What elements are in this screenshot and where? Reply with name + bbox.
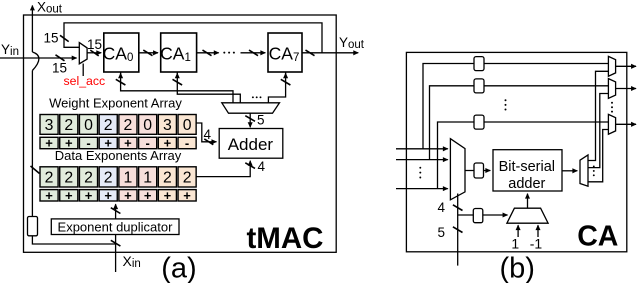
svg-text:2: 2 <box>124 117 133 134</box>
Bit-serial adder box <box>493 150 562 191</box>
register R2 on line 2 <box>474 79 484 93</box>
svg-text:adder: adder <box>508 176 545 192</box>
slash on select line (5) <box>453 227 463 233</box>
register on X path <box>28 217 38 236</box>
dots at demux outputs <box>593 166 595 177</box>
svg-text:+: + <box>85 188 93 203</box>
svg-text:1: 1 <box>143 170 152 187</box>
svg-text:+: + <box>164 188 172 203</box>
slash below CA7 <box>281 79 291 85</box>
slash on data-adder wire <box>245 163 255 169</box>
wire mux select line down <box>457 194 459 266</box>
svg-text:2: 2 <box>183 170 192 187</box>
svg-text:2: 2 <box>163 170 172 187</box>
slash on weight-adder wire <box>204 139 213 145</box>
svg-text:sel_acc: sel_acc <box>64 74 106 88</box>
svg-text:1: 1 <box>511 236 519 252</box>
svg-text:0: 0 <box>143 117 152 134</box>
svg-text:2: 2 <box>84 170 93 187</box>
CA7 cell <box>268 33 302 72</box>
output demux (left-pointing trapezoid) <box>580 155 588 186</box>
operand mux (tall trapezoid) <box>450 139 465 200</box>
wire pass-through line 2 (riser + top run to output mux 2) <box>430 86 609 160</box>
svg-text:3: 3 <box>45 117 54 134</box>
CA1 cell <box>161 33 197 72</box>
slash on mux output <box>90 50 98 56</box>
svg-text:5: 5 <box>438 225 446 240</box>
wire branch to increment demux <box>458 214 508 216</box>
wire mux select <box>82 64 84 77</box>
wire pass-through line 3 (riser + top run to output mux 3) <box>438 122 609 189</box>
wire demux to adder bottom <box>527 194 529 209</box>
svg-text:(a): (a) <box>161 253 196 283</box>
wire adder to output demux <box>562 170 577 172</box>
svg-text:5: 5 <box>257 113 265 128</box>
svg-text:+: + <box>65 188 73 203</box>
wire data array to adder <box>196 161 250 177</box>
wire exponent duplicator to data array <box>115 204 117 219</box>
slash on mux-adder wire <box>245 116 255 122</box>
wire CA0 down to exponent mux <box>121 72 233 103</box>
svg-text:+: + <box>183 188 191 203</box>
register R1 on line 1 <box>474 57 484 71</box>
svg-text:0: 0 <box>183 117 192 134</box>
svg-text:4: 4 <box>258 159 266 174</box>
wire: accumulator feedback from Y line to mux top input <box>64 23 322 53</box>
svg-text:0: 0 <box>84 117 93 134</box>
svg-text:+: + <box>45 136 53 151</box>
output mux 2 <box>608 79 615 99</box>
svg-text:Weight Exponent Array: Weight Exponent Array <box>49 96 182 111</box>
slash on feedback wire <box>60 35 69 41</box>
svg-text:4: 4 <box>438 200 446 215</box>
wire mux to Adder <box>249 113 251 127</box>
dots between mux feed wires <box>252 96 261 98</box>
wire output 3 <box>616 123 636 125</box>
svg-text:+: + <box>104 188 112 203</box>
weight exponent array <box>40 115 196 151</box>
svg-text:Adder: Adder <box>228 135 274 154</box>
output mux 3 <box>608 114 615 134</box>
svg-text:3: 3 <box>163 117 172 134</box>
svg-text:Data Exponents Array: Data Exponents Array <box>55 148 182 163</box>
slash on CA0-CA1 wire <box>143 50 152 56</box>
wire Y_in into mux <box>0 57 77 59</box>
wire dots to CA7 <box>241 52 266 54</box>
arrow up into CA0 <box>120 73 122 78</box>
wire CA0 to CA1 <box>139 52 158 54</box>
svg-text:2: 2 <box>64 117 73 134</box>
slash on Y_out wire <box>306 50 315 56</box>
wire input 3 into operand mux <box>396 188 448 190</box>
slash below CA1 <box>173 79 183 85</box>
register R5 on branch <box>473 209 483 223</box>
wire pass-through line 1 (riser + top run to output mux 1) <box>423 64 608 149</box>
wire X_in up to duplicator <box>115 235 117 273</box>
svg-text:2: 2 <box>104 117 113 134</box>
Exponent duplicator box <box>51 219 179 235</box>
svg-text:Yin: Yin <box>1 42 19 58</box>
wire X riser up to X_out with hop over Y_in <box>31 71 33 217</box>
wire mux output to CA0 <box>87 52 101 54</box>
dots between input wires <box>419 167 421 179</box>
slash below CA0 <box>116 79 126 85</box>
svg-text:Exponent duplicator: Exponent duplicator <box>58 219 174 234</box>
slash on select line (4) <box>453 205 463 211</box>
weight sign cells <box>40 137 58 148</box>
arrow up into CA1 <box>176 73 178 78</box>
tMAC block outline <box>24 15 337 252</box>
svg-text:1: 1 <box>124 170 133 187</box>
CA block outline <box>406 52 626 251</box>
increment demux (up trapezoid) <box>507 208 548 223</box>
wire demux to output mux 3 <box>588 130 608 182</box>
svg-text:2: 2 <box>104 170 113 187</box>
arrow up into CA7 <box>285 73 287 78</box>
wire demux to output mux 1 <box>588 71 608 160</box>
data exponent value cells <box>40 167 58 187</box>
svg-text:15: 15 <box>87 37 102 52</box>
wire CA1 to dots <box>197 52 219 54</box>
dots between output muxes <box>611 102 613 113</box>
wire operand mux to bit-serial adder <box>465 170 490 172</box>
slash on wire to CA7 <box>249 50 258 56</box>
wire CA7 to Y_out <box>302 52 358 54</box>
slash on duplicator wire <box>111 208 121 214</box>
Adder box <box>219 129 283 159</box>
weight exponent value cells <box>40 115 58 135</box>
slash on left X wire <box>31 166 40 174</box>
wire X pass-through (bottom junction to left riser) <box>32 236 115 244</box>
wire output 1 <box>616 65 636 67</box>
slash on CA1 wire <box>203 50 212 56</box>
svg-text:-: - <box>185 136 189 151</box>
wire input 1 into operand mux <box>396 148 448 150</box>
svg-text:Xout: Xout <box>37 0 63 16</box>
svg-text:Xin: Xin <box>123 253 141 270</box>
svg-text:4: 4 <box>204 127 212 142</box>
slash on Y_in wire <box>56 55 65 61</box>
wire weight array to adder <box>196 123 217 142</box>
wire CA1 down to exponent mux <box>177 72 240 103</box>
wire input 2 into operand mux <box>396 159 448 161</box>
wire output 2 <box>616 88 636 90</box>
svg-text:(b): (b) <box>499 253 534 283</box>
svg-text:-1: -1 <box>530 236 543 252</box>
wire demux to output mux 2 <box>588 94 608 168</box>
output mux 1 <box>608 56 615 76</box>
register R4 on adder input <box>474 163 484 178</box>
wire constant 1 input <box>517 225 519 237</box>
dots between CA1 and CA7 <box>223 52 235 54</box>
svg-text:tMAC: tMAC <box>246 222 323 255</box>
wire CA7 down to exponent mux <box>268 72 285 103</box>
svg-text:2: 2 <box>64 170 73 187</box>
svg-text:+: + <box>124 188 132 203</box>
exponent select mux (wide trapezoid) <box>222 103 280 113</box>
CA0 cell <box>104 33 139 72</box>
slash on X_in wire <box>111 240 121 246</box>
wire constant -1 input <box>537 225 539 237</box>
svg-text:2: 2 <box>45 170 54 187</box>
svg-text:Bit-serial: Bit-serial <box>499 159 555 175</box>
data exponents array <box>40 167 196 203</box>
register R3 on line 3 <box>474 115 484 129</box>
dots between top pass-through wires <box>505 99 507 110</box>
mux sel_acc (input multiplexer) <box>79 43 87 64</box>
svg-text:+: + <box>45 188 53 203</box>
data sign cells <box>40 190 58 201</box>
svg-text:+: + <box>144 188 152 203</box>
svg-text:Yout: Yout <box>339 35 365 51</box>
svg-text:15: 15 <box>44 31 59 46</box>
svg-text:CA: CA <box>577 221 618 253</box>
